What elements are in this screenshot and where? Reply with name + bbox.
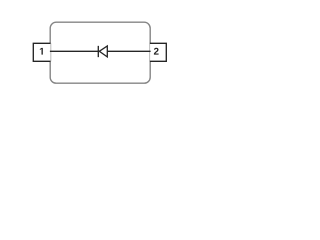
pin 2 number label <box>154 48 159 55</box>
pin 1 box faint right sliver (body edge remnant) <box>50 43 52 61</box>
pin 2 box dark edges (top, right, bottom) <box>150 43 166 61</box>
pin 2 box white fill (overlaps body right edge) <box>149 43 166 61</box>
wire from pin 1 to diode cathode <box>50 50 99 52</box>
pin 1 box dark edges (top, left, bottom) <box>33 43 50 61</box>
component body (rounded rectangle outline) <box>50 22 150 83</box>
diode triangle (anode, pointing left) <box>99 46 107 57</box>
pin 1 number label <box>40 48 43 55</box>
pin 1 box white fill (overlaps body left edge) <box>33 43 51 61</box>
wire from diode anode to pin 2 <box>107 50 150 52</box>
pin 2 box faint left sliver (body edge remnant) <box>149 43 151 61</box>
diode cathode bar <box>97 46 99 57</box>
